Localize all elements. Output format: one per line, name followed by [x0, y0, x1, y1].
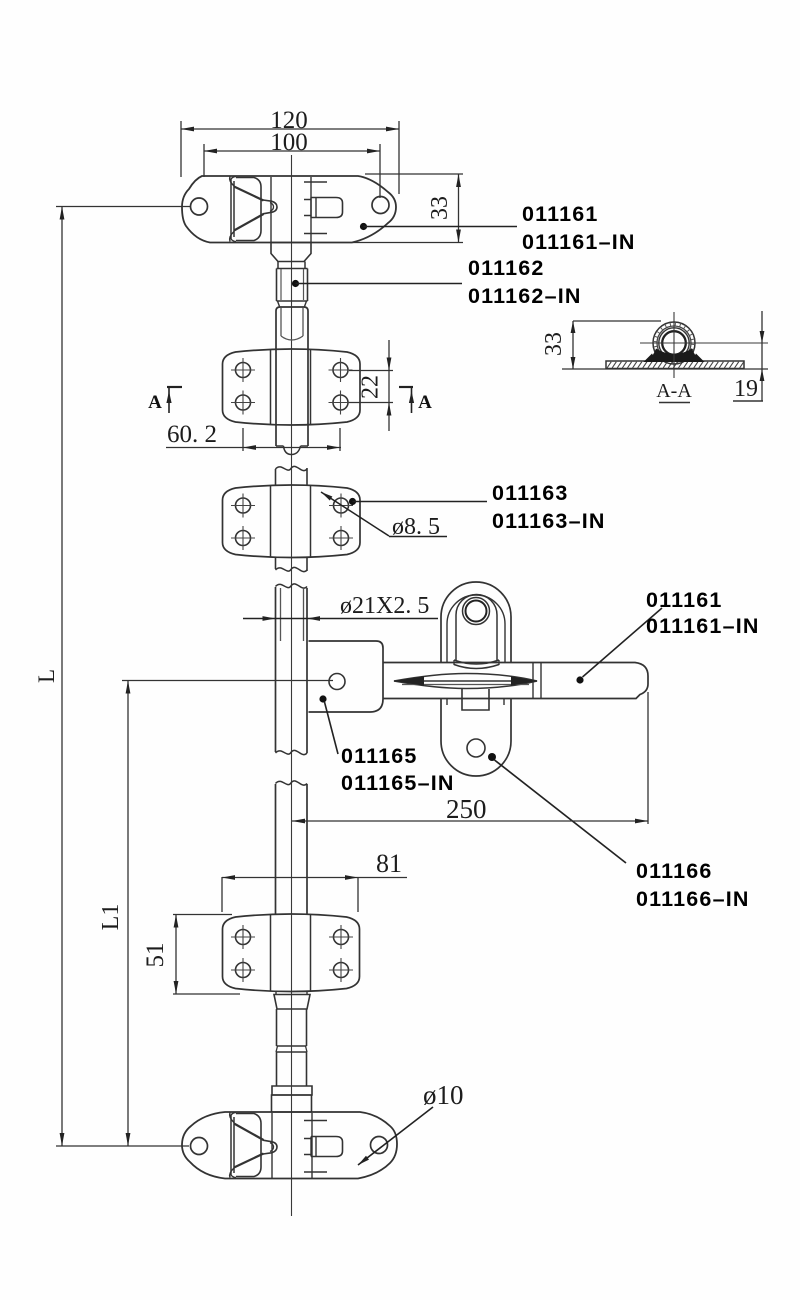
dim 22 ext lines [349, 370, 393, 372]
svg-text:A-A: A-A [656, 380, 692, 402]
svg-text:51: 51 [142, 943, 169, 968]
label 011161 mid leader [576, 676, 583, 683]
keeper eye rings [463, 598, 490, 625]
dim 120 [181, 128, 399, 130]
hub spring washer [454, 660, 499, 664]
rod big tube inner sleeve [280, 308, 282, 337]
keeper outline bottom [441, 699, 511, 777]
section A-A centerlines [673, 312, 675, 378]
rod big tube [276, 307, 308, 446]
centerline main rod [291, 155, 293, 1216]
svg-text:011161–IN: 011161–IN [646, 614, 760, 638]
bracket guide 3 lower [223, 914, 360, 992]
svg-text:19: 19 [734, 376, 758, 402]
section mark A right [399, 386, 413, 388]
section A-A weld feet [648, 349, 700, 363]
dim 81 [222, 877, 407, 879]
svg-text:ø10: ø10 [423, 1080, 464, 1110]
svg-text:011161–IN: 011161–IN [522, 230, 636, 254]
label 011162 leader [292, 280, 299, 287]
lower tube below bracket [275, 992, 277, 995]
top cam right hole [372, 197, 389, 214]
label 011166 leader [488, 753, 496, 761]
hub retainer tab [462, 689, 489, 710]
section A-A dome outer ring [653, 322, 695, 364]
svg-text:011163–IN: 011163–IN [492, 509, 606, 533]
hub lens cam [394, 674, 537, 689]
dim L1 [127, 681, 129, 1147]
svg-text:ø8. 5: ø8. 5 [392, 514, 440, 540]
lower tube top [276, 781, 308, 785]
handle bar [383, 663, 648, 699]
svg-text:011161: 011161 [522, 202, 599, 226]
svg-text:L: L [34, 669, 59, 683]
svg-text:A: A [148, 392, 162, 413]
svg-text:250: 250 [446, 794, 487, 824]
long tube top [276, 584, 308, 588]
dim 33 section [572, 321, 574, 369]
connector tube 2 [276, 1051, 307, 1053]
svg-text:33: 33 [541, 332, 567, 356]
svg-text:A: A [418, 392, 432, 413]
dim 33 ext bottom [353, 242, 463, 244]
section mark A left [167, 386, 182, 388]
svg-text:011165–IN: 011165–IN [341, 771, 455, 795]
bottom cam right hole [371, 1137, 388, 1154]
bottom cam collar lines [271, 1113, 273, 1178]
svg-text:011163: 011163 [492, 481, 569, 505]
top cam plate outline [182, 176, 396, 243]
dim 100 [204, 150, 380, 152]
svg-text:22: 22 [358, 375, 384, 399]
svg-text:011166: 011166 [636, 859, 713, 883]
dim 81 ext left [221, 877, 223, 912]
top cam left hole [191, 198, 208, 215]
connector trapezoid [274, 995, 310, 1010]
dim 33 section ext bottom [562, 368, 768, 370]
connector collar [272, 1086, 312, 1095]
dim 19 section [761, 311, 763, 401]
dim 250 [292, 820, 648, 822]
label 011165 leader [319, 695, 326, 702]
keeper outline top arch [441, 582, 511, 662]
svg-text:33: 33 [427, 196, 453, 220]
dim 51 ext bottom [173, 993, 240, 995]
dim dia 8.5 leader [321, 492, 389, 536]
dim L extension top [56, 206, 190, 208]
rod tube upper [276, 269, 278, 302]
bottom cam interior cam profile [230, 1113, 343, 1178]
svg-text:60. 2: 60. 2 [167, 421, 217, 448]
connector tube 1 [276, 1009, 278, 1046]
long tube break bottom [276, 750, 308, 754]
svg-text:ø21X2. 5: ø21X2. 5 [340, 593, 429, 619]
handle block hole [329, 674, 345, 690]
dim L1 extension top [122, 680, 333, 682]
label 011163 leader [349, 498, 356, 505]
dim 33 section ext top [573, 320, 661, 322]
svg-text:100: 100 [270, 129, 308, 156]
dim 100 ext right [379, 144, 381, 198]
keeper bottom hole [467, 739, 485, 757]
handle block 011165 [309, 641, 384, 712]
keeper inner arch [456, 594, 497, 660]
section A-A base strip [606, 361, 744, 369]
svg-text:011162: 011162 [468, 256, 545, 280]
top cam collar lines through plate [270, 177, 272, 242]
rod stub above bracket2 [276, 466, 308, 470]
rod end dome [284, 446, 301, 455]
dim dia21X2.5 [243, 618, 438, 620]
dim 100 ext left [203, 144, 205, 177]
label 011161 top leader [360, 223, 367, 230]
rod collar [271, 243, 311, 262]
dim 51 ext top [173, 914, 232, 916]
dim 120 ext left [180, 121, 182, 177]
svg-text:011161: 011161 [646, 588, 723, 612]
svg-text:L1: L1 [98, 904, 124, 931]
svg-text:011162–IN: 011162–IN [468, 284, 582, 308]
dim 81 ext right [357, 877, 359, 912]
dim 60.2 ext left [242, 428, 244, 451]
dim 51 [175, 915, 177, 995]
bottom cam outline [182, 1112, 397, 1179]
section A-A tube bore [659, 328, 689, 358]
svg-text:011166–IN: 011166–IN [636, 887, 750, 911]
dim 120 ext right [398, 121, 400, 194]
bracket guide 1 (011162) [223, 349, 361, 425]
dim 60.2 ext right [339, 428, 341, 451]
dim 33 ext top [365, 173, 463, 175]
rod tube chamfer joint [278, 301, 280, 307]
svg-text:011165: 011165 [341, 744, 418, 768]
bracket guide 2 (011163) [223, 485, 361, 558]
svg-text:81: 81 [376, 849, 402, 878]
dim 33 [458, 174, 460, 243]
connector block [272, 1095, 312, 1112]
top cam interior cam profile [230, 179, 232, 239]
dim 250 ext right [647, 692, 649, 824]
dim 60.2 [166, 447, 341, 449]
dim 22 [388, 340, 390, 431]
bottom cam left hole [191, 1138, 208, 1155]
rod neck [277, 262, 279, 269]
dim L [61, 207, 63, 1147]
dim L extension bottom (shared with L1) [56, 1145, 189, 1147]
rod stub below bracket2 [275, 558, 277, 570]
